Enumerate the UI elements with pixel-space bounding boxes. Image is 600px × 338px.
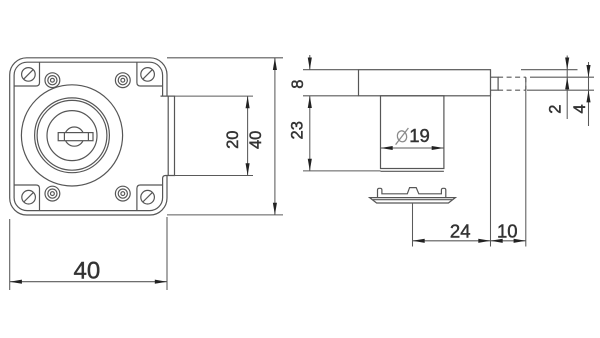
arrow left	[491, 239, 503, 243]
bolt dashed tip	[525, 77, 527, 90]
dim line	[247, 96, 249, 175]
label dia19	[396, 128, 409, 145]
cam dish	[370, 198, 456, 203]
ear bottom-right	[137, 185, 163, 210]
svg-text:40: 40	[247, 131, 265, 149]
dim line	[491, 240, 526, 242]
bolt stub	[491, 77, 499, 90]
ext line left	[9, 219, 11, 290]
ext line top (bolt top extended)	[175, 95, 254, 97]
ear bottom-left	[14, 185, 39, 210]
arrow up	[246, 96, 250, 108]
key slot divider right	[87, 133, 89, 141]
bolt protruding right	[161, 96, 175, 178]
cylinder body	[381, 96, 444, 169]
dim line	[588, 62, 590, 126]
cylinder flange line	[381, 170, 444, 172]
rivet bottom-left	[45, 186, 60, 201]
ear top-left	[14, 62, 39, 86]
svg-text:10: 10	[497, 220, 518, 241]
rivet top-left	[45, 73, 60, 88]
svg-text:8: 8	[289, 80, 307, 89]
ext line top	[167, 57, 283, 59]
screw top-right	[141, 68, 155, 82]
arrow up	[273, 58, 277, 70]
svg-text:20: 20	[224, 131, 242, 149]
ext line bottom (bolt bottom extended)	[175, 175, 254, 177]
ext line bottom	[167, 214, 283, 216]
arrow right	[432, 146, 444, 150]
arrow down	[246, 163, 250, 175]
arrow left	[381, 146, 393, 150]
bolt dashed top	[498, 76, 526, 78]
rivet top-right	[115, 73, 130, 88]
bolt tip ext line for 10	[525, 77, 527, 246]
bolt dashed bottom	[498, 89, 526, 91]
arrow right	[478, 239, 490, 243]
case body	[359, 70, 491, 96]
rotor	[65, 127, 84, 146]
plate inner edge (right side interrupted by bolt)	[14, 62, 163, 210]
arrow down	[273, 203, 277, 215]
arrow right	[155, 280, 167, 284]
ear top-right	[137, 62, 163, 86]
plate outer edge (right side interrupted by bolt)	[10, 58, 167, 215]
arrow up	[586, 90, 590, 102]
dim line	[566, 56, 568, 120]
svg-text:23: 23	[288, 121, 306, 139]
bolt inner edge line	[167, 96, 169, 175]
svg-text:4: 4	[571, 104, 589, 113]
ext top (case top level)	[521, 69, 578, 71]
screw top-left	[22, 68, 36, 82]
arrow left	[10, 280, 22, 284]
arrow down	[565, 58, 569, 70]
dim line	[413, 240, 491, 242]
arrow up	[308, 96, 312, 108]
dim line	[10, 281, 167, 283]
key slot bar	[58, 133, 93, 141]
ring outer	[35, 98, 110, 173]
arrow right	[514, 239, 526, 243]
svg-text:40: 40	[74, 257, 101, 284]
ext bottom	[303, 170, 381, 172]
case right edge extended as ext line for 24	[490, 70, 492, 247]
cup circle	[21, 85, 122, 186]
cam upper profile	[378, 188, 446, 198]
cylinder face	[47, 111, 97, 161]
ext mid (case bottom extended)	[303, 95, 359, 97]
arrow up	[565, 77, 569, 89]
rivet bottom-right	[115, 186, 130, 201]
dim line	[274, 58, 276, 215]
arrow down	[308, 159, 312, 171]
arrow left	[413, 239, 425, 243]
dim line	[309, 96, 311, 171]
screw bottom-right	[141, 190, 155, 204]
ext line right	[166, 217, 168, 290]
upper arrow line	[309, 55, 311, 70]
dim line	[381, 147, 444, 149]
svg-text:24: 24	[450, 220, 471, 241]
svg-text:19: 19	[409, 125, 430, 146]
cam dish inner edge	[373, 199, 452, 201]
ext from cam center	[412, 203, 414, 247]
ext bottom (bolt bottom level)	[527, 89, 594, 91]
ext mid (bolt top level)	[530, 76, 594, 78]
key slot divider left	[63, 133, 65, 141]
ring inner	[37, 100, 107, 170]
screw bottom-left	[22, 190, 36, 204]
ext top	[303, 69, 359, 71]
arrow down	[586, 65, 590, 77]
svg-text:2: 2	[546, 105, 564, 114]
arrow down to case top	[308, 58, 312, 70]
